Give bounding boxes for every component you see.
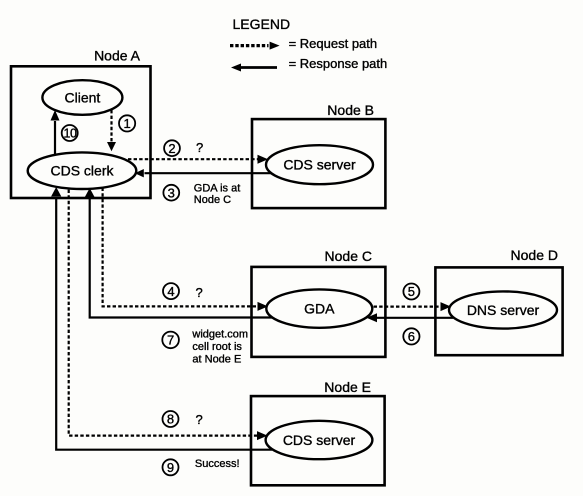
svg-text:?: ?: [196, 285, 203, 300]
ellipse CDS server in node B: [266, 145, 373, 184]
svg-text:widget.com: widget.com: [191, 328, 248, 340]
svg-text:Client: Client: [65, 89, 101, 105]
step label 8: [163, 411, 179, 427]
node D box: [435, 247, 562, 355]
svg-text:8: 8: [167, 412, 174, 427]
step label 9: [163, 459, 179, 475]
svg-text:?: ?: [196, 412, 203, 427]
legend request path sample (dashed arrow): [230, 36, 377, 51]
svg-text:GDA is at: GDA is at: [194, 182, 240, 194]
wire 10 response CDS clerk to Client (solid): [54, 121, 56, 158]
arrowhead wire 3 into clerk: [135, 169, 144, 177]
step label 2: [164, 140, 180, 156]
arrowhead wire 5 into DNS server: [441, 302, 452, 311]
wire 2 request CDS clerk to Node B CDS server (dashed): [128, 158, 258, 160]
arrowhead wire 6 into GDA: [367, 313, 378, 322]
arrowhead wire 8 into CDS server E: [257, 431, 268, 440]
svg-text:GDA: GDA: [304, 300, 335, 316]
wire 1 request Client to CDS clerk (dashed): [110, 110, 112, 143]
svg-text:DNS server: DNS server: [467, 302, 540, 318]
wire 4 request CDS clerk to GDA (dashed, down then right): [103, 182, 258, 306]
svg-text:7: 7: [167, 333, 174, 348]
arrowhead wire 7 into clerk: [85, 188, 95, 198]
ellipse Client: [42, 80, 122, 115]
svg-text:Node D: Node D: [511, 247, 558, 263]
svg-text:1: 1: [123, 116, 130, 131]
wire 3 response Node B CDS server to CDS clerk (solid): [145, 172, 273, 174]
svg-text:9: 9: [167, 460, 174, 475]
ellipse GDA: [266, 289, 372, 327]
wire 8 request CDS clerk to Node E CDS server (dashed, down then right): [69, 184, 257, 436]
ellipse CDS clerk: [28, 152, 137, 189]
node A box: [11, 48, 151, 199]
legend response path sample (solid arrow): [231, 56, 387, 71]
svg-text:cell root is: cell root is: [192, 341, 242, 353]
svg-text:Node A: Node A: [94, 48, 141, 64]
step label 5: [403, 284, 419, 300]
step label 7: [162, 332, 179, 349]
svg-text:= Request path: = Request path: [289, 36, 378, 51]
step label 10: [62, 125, 78, 141]
step label 4: [163, 283, 179, 299]
wire 5 request GDA to DNS server (dashed): [368, 306, 441, 308]
arrowhead wire 1 into clerk: [107, 142, 116, 151]
node E box: [251, 379, 385, 485]
svg-text:CDS server: CDS server: [283, 432, 356, 448]
annotation widget.com cell root is at Node E: [191, 328, 248, 365]
svg-text:at Node E: at Node E: [192, 353, 241, 365]
node C box: [252, 248, 386, 357]
svg-text:3: 3: [168, 185, 175, 200]
arrowhead wire 10 into Client: [51, 110, 60, 121]
ellipse CDS server in node E: [266, 421, 373, 459]
svg-text:Node C: Node C: [194, 194, 231, 206]
svg-text:5: 5: [408, 284, 415, 299]
wire 6 response DNS server to GDA (solid): [377, 317, 453, 319]
step label 1: [119, 115, 135, 131]
svg-text:10: 10: [64, 127, 77, 141]
wire 9 response Node E CDS server to CDS clerk (solid, left then up): [56, 198, 272, 450]
ellipse DNS server: [449, 291, 557, 328]
svg-text:Node E: Node E: [324, 379, 371, 395]
svg-text:Node C: Node C: [325, 248, 372, 264]
svg-text:CDS clerk: CDS clerk: [50, 163, 114, 179]
wire 7 response GDA to CDS clerk (solid, left then up): [90, 199, 272, 318]
svg-text:Success!: Success!: [195, 458, 240, 470]
svg-text:6: 6: [408, 329, 415, 344]
svg-text:CDS server: CDS server: [283, 157, 356, 173]
step label 6: [403, 328, 419, 344]
svg-text:?: ?: [196, 140, 203, 155]
node B box: [252, 102, 385, 208]
svg-text:Node B: Node B: [327, 102, 374, 118]
arrowhead wire 2 into CDS server B: [258, 155, 269, 164]
arrowhead wire 4 into GDA: [258, 302, 269, 311]
svg-text:LEGEND: LEGEND: [233, 16, 291, 32]
svg-text:4: 4: [167, 284, 174, 299]
svg-text:= Response path: = Response path: [289, 56, 388, 71]
step label 3: [163, 185, 179, 201]
arrowhead wire 9 into clerk: [51, 187, 61, 197]
svg-text:2: 2: [168, 141, 175, 156]
annotation GDA is at Node C: [194, 182, 240, 206]
